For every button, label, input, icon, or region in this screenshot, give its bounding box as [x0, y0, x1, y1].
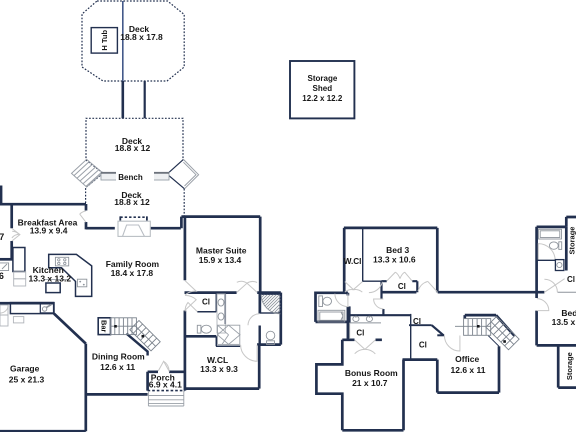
toilet bath2: [319, 296, 323, 307]
wall: right wing top: [537, 217, 576, 227]
garage sink icon: [40, 304, 53, 313]
wall: wcl bottom: [185, 387, 260, 390]
wall: breakfast left vertical: [10, 204, 13, 260]
shower corner: [261, 294, 281, 313]
master bath fixtures: [197, 288, 301, 344]
svg-text:W.Cl: W.Cl: [344, 257, 362, 266]
pedestal sink bath: [266, 331, 275, 340]
corner tub: [218, 325, 240, 344]
svg-text:18.8 x 12: 18.8 x 12: [114, 197, 150, 207]
wall: right wing inner vertical: [565, 227, 568, 271]
svg-text:15.9 x 13.4: 15.9 x 13.4: [199, 255, 242, 265]
door bed3 se: [418, 281, 437, 292]
door porch triangle: [158, 361, 169, 371]
door bed3 closet double: [387, 272, 412, 281]
room labels house1: [0, 218, 247, 390]
kitchen stove: [55, 257, 68, 266]
door bonus double: [355, 340, 376, 354]
wall: garage right: [84, 344, 87, 432]
door left room double: [12, 228, 20, 241]
middle deck dashed outline: [86, 118, 183, 173]
door wcl2 double: [345, 282, 363, 293]
svg-text:18.4 x 17.8: 18.4 x 17.8: [111, 268, 154, 278]
wall: storage bottom: [558, 386, 576, 389]
wall: storage left: [557, 345, 560, 387]
svg-text:Storage: Storage: [308, 74, 338, 83]
cl strip left thin: [349, 323, 351, 339]
house2 fixtures: [318, 229, 564, 322]
laundry sink left edge: [0, 263, 9, 271]
house2 doors: [335, 244, 565, 354]
wall: dining bottom: [86, 393, 148, 396]
wall: garage bottom: [0, 430, 86, 432]
closet bracket left: [382, 281, 387, 299]
wall: left edge upper room: [0, 186, 2, 205]
wall: bonus bottom: [342, 429, 403, 432]
svg-text:Cl: Cl: [419, 340, 427, 349]
wall: bridge bottom: [403, 358, 438, 361]
svg-text:13.9 x 9.4: 13.9 x 9.4: [30, 225, 68, 235]
wall: bonus top: [342, 338, 382, 341]
stairs diagonal flight: [130, 321, 160, 351]
storage shed box: [290, 61, 354, 118]
wall: hall top thin right: [558, 291, 576, 293]
wall: bath bottom: [257, 343, 281, 346]
wall: wcl right: [258, 345, 261, 389]
stairs straight flight house2: [455, 319, 491, 336]
wall: porch left + top: [148, 372, 185, 391]
wall: right wing bottom: [537, 344, 576, 347]
svg-text:Office: Office: [455, 354, 479, 364]
deck center walkway line: [122, 1, 124, 81]
svg-text:12.6 x 11: 12.6 x 11: [100, 362, 135, 372]
bar counter: [98, 318, 110, 335]
wall: wcl2/bed3 divider: [362, 228, 364, 282]
deck corner stairs (left diamond): [72, 159, 103, 187]
garage counter: [10, 303, 54, 314]
house2 stairs: [455, 317, 519, 350]
door bed2: [537, 299, 549, 311]
room labels house2: [344, 227, 576, 388]
svg-text:21 x 10.7: 21 x 10.7: [352, 378, 388, 388]
wall: house2 left: [343, 228, 346, 293]
wall: office top: [437, 334, 444, 336]
svg-text:Cl: Cl: [567, 275, 575, 284]
vanity2 back thin: [350, 322, 381, 324]
closet wall master: [197, 293, 216, 312]
house1 entry structure at deck: [118, 221, 150, 236]
door master south double: [237, 281, 257, 292]
svg-text:13.3 x 10.6: 13.3 x 10.6: [373, 254, 416, 264]
bathtub wing: [539, 229, 562, 239]
stairs diagonal flight house2: [486, 317, 519, 350]
door office: [444, 336, 460, 352]
garage steps left: [0, 305, 8, 315]
sink2a: [353, 316, 359, 321]
svg-text:H Tub: H Tub: [100, 30, 109, 51]
garage opener box: [13, 317, 23, 323]
wall: office right: [498, 346, 501, 392]
svg-text:13.5 x 13.9: 13.5 x 13.9: [552, 317, 576, 327]
wall: house top (breakfast): [0, 203, 86, 206]
svg-text:Cl: Cl: [202, 297, 210, 306]
vanity2 left wall: [349, 306, 351, 323]
svg-text:Bonus Room: Bonus Room: [345, 368, 398, 378]
svg-text:Cl: Cl: [398, 282, 406, 291]
wall: hall top long: [382, 291, 545, 294]
bathtub bath2: [318, 310, 345, 322]
wall: bonus left + bump: [316, 340, 342, 431]
svg-text:13.3 x 9.3: 13.3 x 9.3: [200, 364, 238, 374]
wall: corridor bottom + stub: [465, 315, 496, 319]
wall: master/bath south: [185, 291, 281, 294]
door bath2: [335, 294, 348, 307]
svg-text:6: 6: [0, 271, 4, 281]
vanity double sink: [217, 294, 225, 333]
wall: bath2 box: [316, 293, 348, 340]
door garage entry: [0, 305, 8, 313]
wall: wcl top: [185, 335, 217, 338]
kitchen fridge: [13, 248, 25, 272]
svg-text:18.8 x 17.8: 18.8 x 17.8: [120, 32, 163, 42]
wall: bath right exterior: [279, 293, 282, 345]
wing small closet box: [555, 260, 564, 271]
door master closet: [185, 303, 197, 312]
svg-text:Bench: Bench: [118, 173, 143, 182]
wall: stair diagonal thick: [496, 315, 514, 336]
wall: bath divider: [259, 293, 261, 345]
door breakfast-deck: [80, 211, 86, 222]
lower deck dashed outline: [86, 173, 103, 204]
wall: family/dining diagonal: [127, 334, 148, 356]
closet divider vertical: [410, 314, 412, 359]
kitchen island: [46, 283, 60, 293]
svg-text:Cl: Cl: [356, 328, 364, 337]
svg-text:13.3 x 13.2: 13.3 x 13.2: [29, 273, 72, 283]
svg-text:6.9 x 4.1: 6.9 x 4.1: [149, 379, 182, 389]
wall: bed3 right: [436, 228, 439, 292]
wall: left edge horizontal: [0, 258, 13, 261]
hall closet east wall: [382, 309, 384, 315]
closet bracket right: [412, 281, 417, 292]
wall: bonus right: [402, 360, 405, 431]
wall: right wing left vertical: [535, 227, 538, 346]
octagon deck outline: [82, 1, 184, 81]
wing thin wall: [537, 259, 556, 261]
porch steps: [148, 391, 183, 406]
wall: stairwell thin diagonal: [488, 336, 499, 347]
svg-text:12.6 x 11: 12.6 x 11: [451, 365, 486, 375]
wall: master suite right: [259, 217, 262, 293]
toilet wing: [549, 242, 558, 249]
bench: [101, 172, 169, 180]
entry stoop box: [118, 221, 150, 236]
svg-text:Bar: Bar: [99, 320, 108, 333]
stairs straight flight: [111, 318, 137, 335]
hot tub H Tub: [91, 28, 117, 53]
door bath divider: [248, 314, 259, 326]
walkway connector left: [122, 81, 125, 118]
wall: office left: [436, 360, 439, 393]
closet divider horizontal: [409, 324, 432, 326]
entry dashed sill: [120, 216, 147, 218]
tub nook wall: [216, 336, 240, 346]
walkway connector right: [144, 81, 146, 118]
wall: bed3 bottom thin: [363, 280, 382, 282]
wall: breakfast right / deck edge: [85, 204, 88, 229]
wall: master left: [184, 217, 187, 337]
entry splay trapezoid: [123, 225, 145, 236]
wall: house2 top: [344, 227, 437, 230]
svg-text:Storage: Storage: [568, 227, 576, 255]
door master double: [185, 281, 196, 311]
svg-text:7: 7: [0, 232, 4, 242]
door hall2: [374, 299, 384, 309]
kitchen dishwasher: [77, 279, 86, 287]
svg-text:Storage: Storage: [565, 352, 574, 380]
svg-text:18.8 x 12: 18.8 x 12: [115, 143, 151, 153]
wall: garage top: [0, 302, 54, 305]
door bath3: [538, 244, 555, 261]
kitchen leader line: [45, 279, 69, 281]
wall: family room top: [86, 227, 181, 230]
toilet master: [197, 325, 201, 333]
kitchen counter L: [49, 254, 92, 296]
sink2b: [366, 316, 372, 321]
door corridor east: [544, 279, 564, 293]
svg-text:Dining Room: Dining Room: [92, 352, 145, 362]
svg-text:12.2 x 12.2: 12.2 x 12.2: [302, 94, 343, 103]
entry ticks: [120, 216, 147, 220]
door hall west: [369, 282, 383, 293]
wall: porch right vertical: [184, 336, 187, 390]
deck corner planter (right diamond): [167, 159, 199, 188]
svg-text:Cl: Cl: [413, 317, 421, 326]
svg-text:Shed: Shed: [313, 84, 333, 93]
vanity2 front wall: [350, 314, 411, 316]
svg-text:Garage: Garage: [10, 364, 40, 374]
closet diagonal wall: [432, 325, 444, 335]
wall: garage diagonal: [54, 314, 86, 344]
vanity wall master: [224, 293, 226, 324]
door wcl-bath: [241, 345, 258, 362]
wall: office bottom: [437, 391, 499, 394]
porch bottom dashed: [148, 390, 185, 392]
svg-text:25 x 21.3: 25 x 21.3: [9, 375, 45, 385]
kitchen pantry shelves: [14, 272, 26, 279]
wall: master suite top corner: [181, 217, 260, 229]
